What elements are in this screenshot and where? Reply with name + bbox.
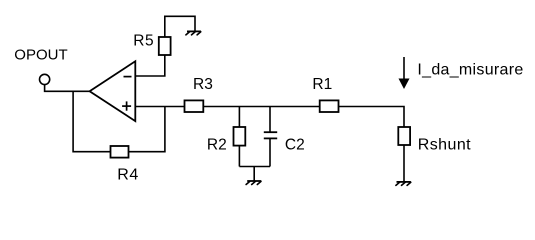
terminal OPOUT <box>40 74 50 84</box>
wire junction R2 C2 <box>239 166 270 168</box>
wire R2 to junction <box>238 146 240 167</box>
svg-text:I_da_misurare: I_da_misurare <box>417 62 523 79</box>
ground (top, R5) <box>186 31 201 35</box>
wire noninverting input to R3 <box>135 106 185 108</box>
wire junction to ground <box>253 167 255 181</box>
svg-text:OPOUT: OPOUT <box>14 46 67 63</box>
svg-text:R4: R4 <box>117 166 138 183</box>
resistor R2 <box>234 127 246 146</box>
svg-text:C2: C2 <box>285 137 305 154</box>
resistor R3 <box>185 100 204 112</box>
wire C2 to junction <box>269 139 271 167</box>
svg-text:Rshunt: Rshunt <box>418 137 472 154</box>
wire C2 branch <box>269 107 271 133</box>
resistor Rshunt <box>398 127 410 145</box>
current arrow I_da_misurare <box>399 57 410 89</box>
svg-text:R5: R5 <box>133 32 154 49</box>
wire R5 to ground <box>165 16 195 37</box>
svg-text:R1: R1 <box>312 76 332 93</box>
resistor R5 <box>159 37 171 55</box>
svg-text:R3: R3 <box>193 76 213 93</box>
wire inverting input to R5 <box>135 55 165 76</box>
resistor R1 <box>320 100 339 112</box>
wire Rshunt to ground <box>403 145 405 182</box>
op-amp U1 <box>90 61 136 121</box>
resistor R4 <box>111 146 129 158</box>
wire R4 to noninverting node <box>129 107 165 152</box>
wire R3 to R1 <box>204 106 320 108</box>
wire terminal to op-amp output <box>45 85 90 92</box>
ground (right, Rshunt) <box>396 182 411 186</box>
ground (middle, RC) <box>246 181 261 185</box>
wire R2 branch <box>238 107 240 128</box>
capacitor C2 <box>264 132 277 138</box>
svg-text:R2: R2 <box>207 137 227 154</box>
wire R1 to Rshunt corner <box>339 107 405 128</box>
wire feedback drop from output <box>73 91 110 151</box>
